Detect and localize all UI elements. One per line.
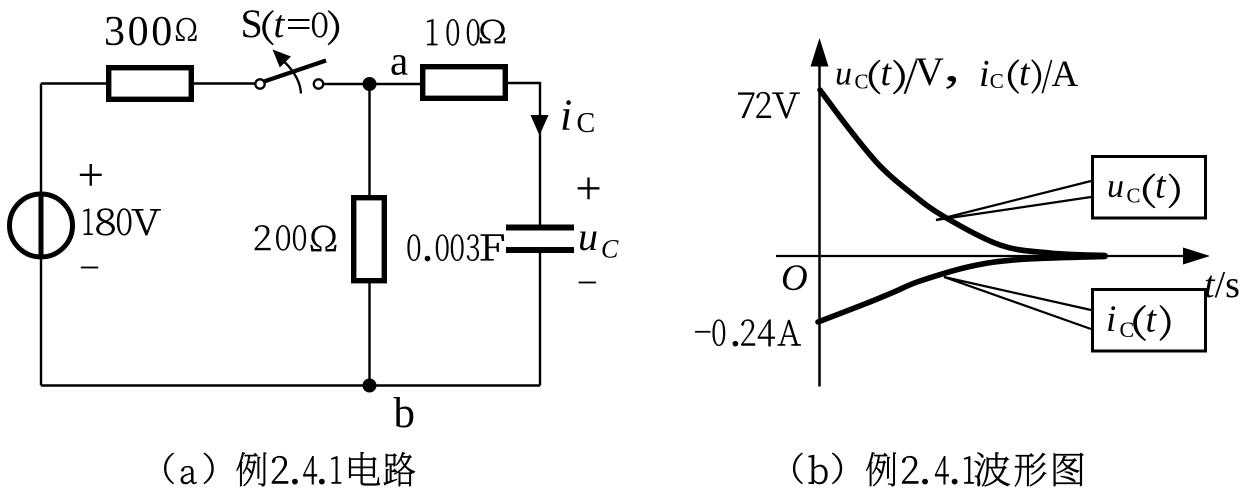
svg-text:C: C bbox=[1127, 184, 1141, 208]
label 0b of 0.003F bbox=[436, 234, 449, 260]
svg-text:t: t bbox=[881, 52, 893, 94]
label 2 of R3 bbox=[255, 225, 271, 250]
uC label box bbox=[1093, 157, 1206, 219]
caption-a （ bbox=[164, 453, 173, 484]
caption (b) bbox=[793, 452, 1083, 486]
label 3 of 0.003F bbox=[467, 234, 479, 260]
caption-a . bbox=[319, 479, 324, 484]
svg-text:C: C bbox=[601, 234, 619, 263]
pointer line lower of iC box bbox=[944, 277, 1091, 329]
header )2 bbox=[1032, 60, 1041, 94]
label V of 180V bbox=[132, 209, 161, 235]
caption-b 2 bbox=[902, 456, 918, 483]
svg-text:=: = bbox=[286, 3, 312, 46]
svg-text:t: t bbox=[274, 3, 286, 46]
label 0 of 180V bbox=[117, 208, 131, 235]
switch S motion arc bbox=[285, 62, 302, 94]
svg-text:t: t bbox=[1019, 52, 1031, 94]
wire top from source to R1 bbox=[41, 82, 107, 84]
label Omega of R1 bbox=[176, 18, 197, 41]
svg-text:C: C bbox=[855, 70, 869, 94]
wire bottom rail bbox=[41, 384, 540, 386]
resistor R3 200 Ohm box bbox=[354, 198, 385, 281]
label 0 of switch bbox=[312, 13, 327, 38]
iC label box bbox=[1093, 290, 1206, 352]
label minus of -0.24A bbox=[695, 331, 710, 332]
svg-text:+: + bbox=[575, 163, 602, 215]
header slash2 bbox=[1042, 60, 1052, 93]
pointer line upper of uC box bbox=[936, 181, 1091, 220]
caption (a) bbox=[164, 452, 415, 486]
label period of 0.003F bbox=[425, 256, 430, 261]
label minus of source bbox=[81, 267, 98, 268]
label 8 of 180V bbox=[96, 208, 114, 235]
curve iC exponential rise bbox=[818, 257, 1105, 323]
voltage source vertical bar bbox=[39, 192, 44, 259]
header ) bbox=[893, 60, 904, 94]
header (2 bbox=[1008, 60, 1019, 94]
svg-text:300: 300 bbox=[104, 9, 175, 55]
label 0 of 0.003F bbox=[408, 234, 421, 260]
caption-a ） bbox=[204, 453, 214, 484]
label 7 of 72V bbox=[738, 93, 754, 118]
resistor R2 100 Ohm box bbox=[423, 67, 506, 99]
label Omega of R2 bbox=[480, 20, 506, 44]
caption-a 1 bbox=[331, 456, 341, 483]
switch S blade bbox=[264, 61, 326, 82]
svg-text:i: i bbox=[979, 53, 990, 95]
caption-a 4 bbox=[303, 456, 317, 484]
caption-a 例 bbox=[236, 452, 266, 486]
caption-b . bbox=[922, 479, 927, 484]
pointer line lower of uC box bbox=[936, 197, 1091, 220]
wire R2 to top right corner down to capacitor bbox=[507, 83, 540, 225]
node a junction dot bbox=[363, 77, 377, 91]
caption-b （ bbox=[793, 453, 802, 484]
curve uC exponential decay bbox=[820, 90, 1105, 256]
wire switch right terminal to node a bbox=[323, 83, 421, 85]
svg-text:C: C bbox=[577, 108, 596, 139]
label V of 72V bbox=[772, 93, 799, 119]
svg-text:A: A bbox=[1052, 54, 1079, 95]
caption-b 波 bbox=[975, 452, 1010, 486]
label 1 of 180V bbox=[84, 209, 93, 235]
graph horizontal axis bbox=[776, 255, 1186, 257]
label F of 0.003F bbox=[481, 235, 504, 261]
caption-b 形 bbox=[1015, 453, 1046, 486]
svg-text:u: u bbox=[1107, 168, 1124, 205]
label 0c of 0.003F bbox=[451, 234, 464, 260]
label minus of capacitor bbox=[579, 282, 596, 283]
svg-text:i: i bbox=[560, 91, 572, 140]
svg-text:t/s: t/s bbox=[1204, 264, 1240, 306]
svg-text:u: u bbox=[835, 56, 852, 93]
svg-text:b: b bbox=[394, 390, 416, 437]
header slash bbox=[904, 61, 917, 94]
svg-text:O: O bbox=[781, 258, 808, 299]
svg-text:+: + bbox=[78, 149, 105, 201]
svg-text:C: C bbox=[1120, 317, 1135, 342]
caption-a a bbox=[181, 466, 197, 484]
svg-text:C: C bbox=[990, 69, 1004, 93]
svg-text:V: V bbox=[915, 49, 944, 94]
pointer line upper of iC box bbox=[944, 277, 1091, 310]
caption-a 2 bbox=[272, 456, 288, 483]
wire left vertical branch with source bbox=[40, 84, 42, 386]
label 1 of R2 bbox=[427, 19, 437, 45]
label 0b of R3 bbox=[293, 225, 306, 250]
caption-a 电 bbox=[349, 452, 380, 485]
graph horizontal axis arrowhead bbox=[1183, 248, 1210, 265]
label ) of switch bbox=[328, 11, 339, 45]
wire node a down to R3 bbox=[368, 84, 370, 196]
current arrow iC bbox=[531, 115, 549, 136]
label 0 of R3 bbox=[276, 225, 290, 250]
svg-text:a: a bbox=[390, 37, 408, 83]
voltage source circle bbox=[10, 194, 73, 257]
caption-b 例 bbox=[866, 452, 896, 486]
header fullwidth comma bbox=[947, 76, 956, 88]
uC box ( bbox=[1143, 174, 1155, 208]
header ( bbox=[869, 60, 880, 94]
resistor R1 300 Ohm box bbox=[109, 68, 192, 100]
iC box ) bbox=[1160, 305, 1170, 340]
svg-text:u: u bbox=[578, 214, 598, 259]
wire capacitor bottom plate to bottom rail bbox=[539, 253, 541, 386]
label period of -0.24A bbox=[733, 341, 738, 346]
wire R1 to switch left terminal bbox=[193, 82, 255, 84]
graph vertical axis bbox=[818, 60, 821, 387]
label Omega of R3 bbox=[311, 226, 337, 251]
capacitor C bottom plate bbox=[506, 247, 574, 253]
switch S right terminal circle bbox=[314, 79, 323, 88]
caption-b ） bbox=[832, 453, 842, 484]
label 0b of R2 bbox=[467, 19, 479, 45]
label A of -0.24A bbox=[778, 320, 801, 345]
label 4 of -0.24A bbox=[758, 320, 775, 347]
label 2 of -0.24A bbox=[741, 320, 755, 346]
caption-b . bbox=[952, 479, 957, 484]
svg-text:t: t bbox=[1146, 299, 1158, 341]
svg-text:i: i bbox=[1106, 299, 1116, 340]
caption-b 图 bbox=[1054, 453, 1084, 486]
node b junction dot bbox=[363, 379, 377, 393]
caption-a 路 bbox=[384, 452, 415, 486]
caption-b b bbox=[809, 455, 828, 484]
label 0 of -0.24A bbox=[713, 320, 725, 346]
wire R3 down to node b bbox=[368, 283, 370, 386]
label 2 of 72V bbox=[756, 92, 770, 118]
caption-a . bbox=[292, 479, 297, 484]
capacitor C top plate bbox=[506, 225, 574, 231]
svg-text:t: t bbox=[1155, 165, 1167, 207]
iC box ( bbox=[1134, 305, 1146, 340]
uC box ) bbox=[1169, 174, 1180, 208]
caption-b 1 bbox=[964, 456, 974, 483]
label 0 of R2 bbox=[447, 19, 459, 45]
switch S arrowhead bbox=[273, 50, 292, 68]
label ( of switch bbox=[263, 11, 274, 45]
switch S left terminal circle bbox=[255, 79, 264, 88]
graph vertical axis arrowhead bbox=[811, 38, 829, 67]
caption-b 4 bbox=[935, 456, 949, 484]
svg-text:S: S bbox=[241, 1, 263, 46]
